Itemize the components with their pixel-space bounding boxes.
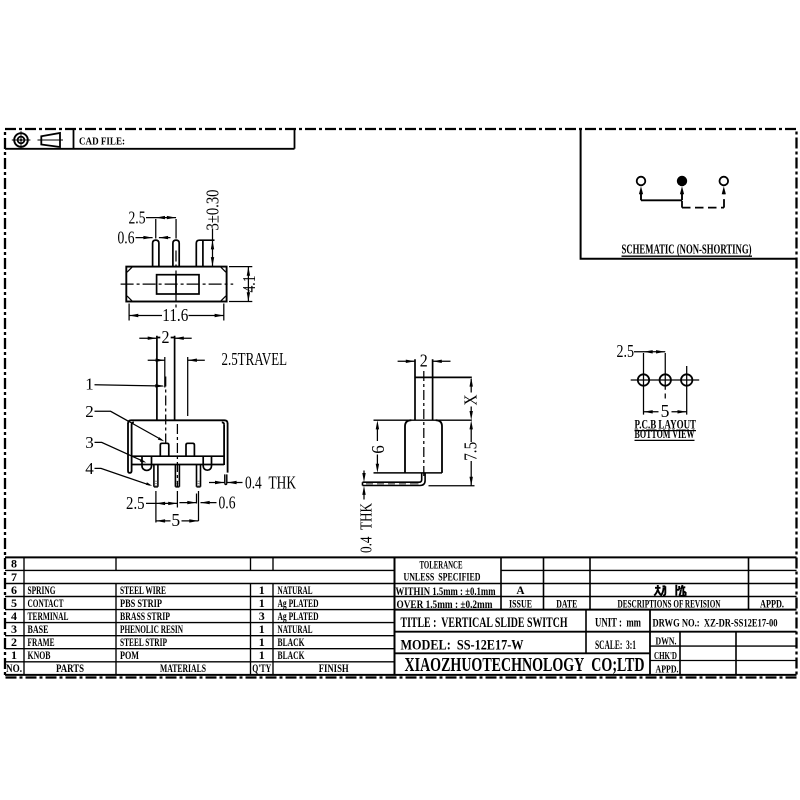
front view right foot tab bbox=[203, 457, 211, 471]
front view frame bottom tab (0.4 thk) bbox=[225, 474, 227, 484]
svg-text:DATE: DATE bbox=[556, 599, 577, 611]
table vertical lines bbox=[24, 557, 749, 675]
top view vertical centerline bbox=[175, 251, 177, 309]
dimension 0.4 THK front bbox=[209, 482, 243, 484]
pin hatch marks bbox=[155, 481, 200, 486]
schematic pole arrow 3 bbox=[722, 186, 726, 194]
CAD FILE header bar bbox=[5, 129, 295, 149]
svg-text:ISSUE: ISSUE bbox=[509, 599, 532, 611]
dimension 2.5 pcb bbox=[634, 351, 665, 353]
front view contact bump 1 bbox=[160, 443, 169, 456]
svg-text:0.6: 0.6 bbox=[118, 228, 135, 248]
top view pin 2 bbox=[173, 240, 179, 267]
svg-text:NATURAL: NATURAL bbox=[278, 622, 313, 636]
svg-text:DESCRIPTIONS OF REVISION: DESCRIPTIONS OF REVISION bbox=[618, 599, 722, 611]
svg-text:SCALE: 3:1: SCALE: 3:1 bbox=[595, 638, 636, 652]
svg-text:STEEL STRIP: STEEL STRIP bbox=[120, 635, 167, 649]
top view corner chamfer marks bbox=[127, 267, 226, 301]
svg-text:4: 4 bbox=[11, 609, 17, 623]
table horizontal lines bbox=[5, 557, 797, 675]
svg-text:7.5: 7.5 bbox=[461, 442, 481, 461]
dimension 0.6 top view bbox=[136, 237, 171, 239]
schematic pole arrow 1 bbox=[639, 186, 643, 194]
svg-text:1: 1 bbox=[259, 622, 265, 636]
schematic box bbox=[581, 130, 796, 259]
svg-text:7: 7 bbox=[11, 570, 17, 584]
top view horizontal centerline bbox=[121, 283, 234, 285]
svg-text:A: A bbox=[516, 585, 525, 597]
svg-text:2: 2 bbox=[420, 350, 428, 370]
schematic pole arrow 2 bbox=[680, 186, 684, 194]
svg-text:2.5: 2.5 bbox=[126, 493, 145, 513]
side view body top line with extensions bbox=[374, 419, 472, 421]
svg-text:MATERIALS: MATERIALS bbox=[160, 661, 206, 675]
svg-text:TITLE : VERTICAL SLIDE SWITCH: TITLE : VERTICAL SLIDE SWITCH bbox=[401, 615, 568, 631]
svg-text:XIAOZHUOTECHNOLOGY CO;LTD: XIAOZHUOTECHNOLOGY CO;LTD bbox=[405, 654, 645, 676]
tolerance block text bbox=[396, 559, 785, 611]
dimension 2 front knob bbox=[139, 337, 191, 339]
side view body bottom line with extension bbox=[374, 472, 443, 474]
front view knob bbox=[157, 336, 175, 421]
dimension 7.5 side bbox=[470, 428, 472, 486]
svg-text:3: 3 bbox=[11, 622, 17, 636]
svg-text:TERMINAL: TERMINAL bbox=[28, 609, 69, 623]
pcb hole 3 bbox=[681, 374, 692, 385]
svg-text:2.5TRAVEL: 2.5TRAVEL bbox=[222, 349, 288, 369]
svg-text:BOTTOM VIEW: BOTTOM VIEW bbox=[635, 426, 695, 441]
svg-text:NO.: NO. bbox=[6, 661, 22, 675]
svg-text:APPD.: APPD. bbox=[656, 663, 679, 675]
projection symbol cone bbox=[38, 133, 64, 147]
svg-text:11.6: 11.6 bbox=[162, 305, 188, 325]
revision entry CJK (first edition) bbox=[654, 585, 685, 596]
front view pin 3 bbox=[197, 465, 201, 487]
svg-text:1: 1 bbox=[259, 648, 265, 662]
7.5 bottom extension line bbox=[429, 485, 475, 487]
side view knob bbox=[415, 359, 472, 420]
side view bent pin bbox=[363, 473, 426, 486]
svg-text:2.5: 2.5 bbox=[129, 207, 146, 227]
top view body bbox=[126, 267, 226, 302]
schematic terminal 1 (circle) bbox=[637, 177, 646, 186]
drawing sheet border (dash-dot frame) bbox=[5, 129, 797, 678]
svg-text:SCHEMATIC (NON-SHORTING): SCHEMATIC (NON-SHORTING) bbox=[622, 243, 752, 258]
parts list text bbox=[6, 557, 349, 676]
front view knob centerline bbox=[165, 377, 167, 444]
svg-text:CHK'D: CHK'D bbox=[654, 650, 677, 662]
svg-text:PBS STRIP: PBS STRIP bbox=[120, 596, 162, 610]
svg-text:X: X bbox=[461, 394, 481, 405]
top view slider opening bbox=[157, 275, 199, 294]
svg-text:BLACK: BLACK bbox=[278, 635, 305, 649]
svg-text:STEEL WIRE: STEEL WIRE bbox=[120, 583, 166, 597]
pin 1 centerline bbox=[155, 491, 157, 523]
front view pin 2 bbox=[175, 465, 179, 487]
top view pin 3 bbox=[196, 240, 214, 266]
front view pin 1 bbox=[154, 465, 158, 487]
svg-text:1: 1 bbox=[259, 583, 265, 597]
schematic terminal 3 (circle) bbox=[720, 177, 729, 186]
svg-text:5: 5 bbox=[171, 510, 180, 530]
svg-text:1: 1 bbox=[11, 648, 17, 662]
svg-text:Ag PLATED: Ag PLATED bbox=[278, 596, 319, 610]
svg-text:6: 6 bbox=[11, 583, 17, 597]
svg-text:2: 2 bbox=[11, 635, 17, 649]
svg-text:UNLESS SPECIFIED: UNLESS SPECIFIED bbox=[404, 571, 481, 583]
dimension 5 front bbox=[156, 520, 199, 522]
schematic terminal 2 common (filled circle) bbox=[677, 176, 687, 186]
dimension 6 side bbox=[376, 428, 378, 465]
svg-text:CONTACT: CONTACT bbox=[28, 596, 64, 610]
svg-text:0.6: 0.6 bbox=[219, 492, 236, 512]
top view pin 1 bbox=[153, 240, 159, 267]
svg-text:1: 1 bbox=[259, 635, 265, 649]
pcb hole vertical centerlines bbox=[644, 353, 687, 415]
svg-text:PHENOLIC RESIN: PHENOLIC RESIN bbox=[120, 622, 183, 636]
dimension 2.5 front bbox=[146, 502, 177, 504]
svg-text:3: 3 bbox=[85, 433, 94, 452]
front view left foot tab bbox=[142, 457, 152, 471]
svg-text:1: 1 bbox=[85, 374, 94, 393]
svg-text:POM: POM bbox=[120, 648, 139, 662]
svg-text:DRWG NO.: XZ-DR-SS12E17-00: DRWG NO.: XZ-DR-SS12E17-00 bbox=[653, 616, 778, 630]
dimension X side bbox=[470, 379, 472, 413]
svg-text:5: 5 bbox=[11, 596, 17, 610]
pcb hole 2 bbox=[660, 374, 671, 385]
svg-text:BRASS STRIP: BRASS STRIP bbox=[120, 609, 170, 623]
svg-text:1: 1 bbox=[259, 596, 265, 610]
svg-text:0.4 THK: 0.4 THK bbox=[357, 502, 376, 553]
dimension 2.5 TRAVEL bbox=[148, 357, 205, 416]
svg-text:DWN.: DWN. bbox=[656, 635, 677, 647]
svg-text:0.4 THK: 0.4 THK bbox=[245, 473, 296, 493]
front view base strip bbox=[132, 456, 225, 464]
svg-text:2: 2 bbox=[85, 402, 94, 421]
svg-text:6: 6 bbox=[368, 445, 388, 454]
svg-text:Q'TY: Q'TY bbox=[252, 661, 271, 675]
svg-text:UNIT : mm: UNIT : mm bbox=[595, 616, 641, 630]
svg-text:NATURAL: NATURAL bbox=[278, 583, 313, 597]
svg-text:Ag PLATED: Ag PLATED bbox=[278, 609, 319, 623]
dimension 0.4 THK side bbox=[363, 471, 365, 500]
front view body top and frame bbox=[128, 420, 228, 473]
svg-text:2.5: 2.5 bbox=[617, 341, 635, 361]
dimension 2 side bbox=[398, 360, 451, 362]
svg-text:KNOB: KNOB bbox=[28, 648, 51, 662]
front view body centerline through pin 2 bbox=[176, 424, 178, 487]
dimension 0.6 front bbox=[179, 494, 216, 504]
svg-text:3±0.30: 3±0.30 bbox=[203, 189, 223, 230]
svg-text:PARTS: PARTS bbox=[56, 661, 84, 675]
svg-text:MODEL: SS-12E17-W: MODEL: SS-12E17-W bbox=[401, 637, 524, 653]
svg-text:4.1: 4.1 bbox=[239, 276, 259, 293]
dimension 5 pcb bbox=[644, 411, 687, 413]
svg-text:8: 8 bbox=[11, 557, 17, 571]
dimension 3±0.30 top view bbox=[212, 229, 214, 267]
svg-text:4: 4 bbox=[85, 459, 94, 478]
svg-text:TOLERANCE: TOLERANCE bbox=[420, 559, 463, 571]
side view body bbox=[405, 420, 442, 473]
wire solid position 1 bbox=[641, 193, 682, 200]
pin 3 centerline bbox=[198, 491, 200, 521]
svg-text:FINISH: FINISH bbox=[319, 661, 349, 675]
dimension 11.6 top view bbox=[129, 304, 224, 321]
dimension 2.5 top view bbox=[146, 218, 176, 239]
front view contact bump 2 bbox=[186, 443, 194, 456]
svg-text:WITHIN 1.5mm : ±0.1mm: WITHIN 1.5mm : ±0.1mm bbox=[396, 586, 496, 598]
pcb horizontal centerline bbox=[631, 379, 700, 381]
projection symbol circle bbox=[12, 131, 31, 148]
svg-text:OVER 1.5mm : ±0.2mm: OVER 1.5mm : ±0.2mm bbox=[397, 599, 493, 611]
pcb hole 1 bbox=[638, 374, 649, 385]
svg-text:BLACK: BLACK bbox=[278, 648, 305, 662]
svg-text:3: 3 bbox=[259, 609, 265, 623]
dimension 4.1 top view bbox=[229, 267, 252, 302]
side pin hatch marks bbox=[366, 483, 419, 485]
svg-text:FRAME: FRAME bbox=[28, 635, 55, 649]
side view knob centerline bbox=[423, 371, 425, 477]
svg-text:SPRING: SPRING bbox=[28, 583, 56, 597]
svg-text:BASE: BASE bbox=[28, 622, 49, 636]
svg-text:CAD FILE:: CAD FILE: bbox=[79, 136, 125, 148]
svg-text:APPD.: APPD. bbox=[760, 599, 784, 611]
svg-text:2: 2 bbox=[162, 327, 170, 347]
wire dashed position 2 bbox=[682, 195, 724, 208]
